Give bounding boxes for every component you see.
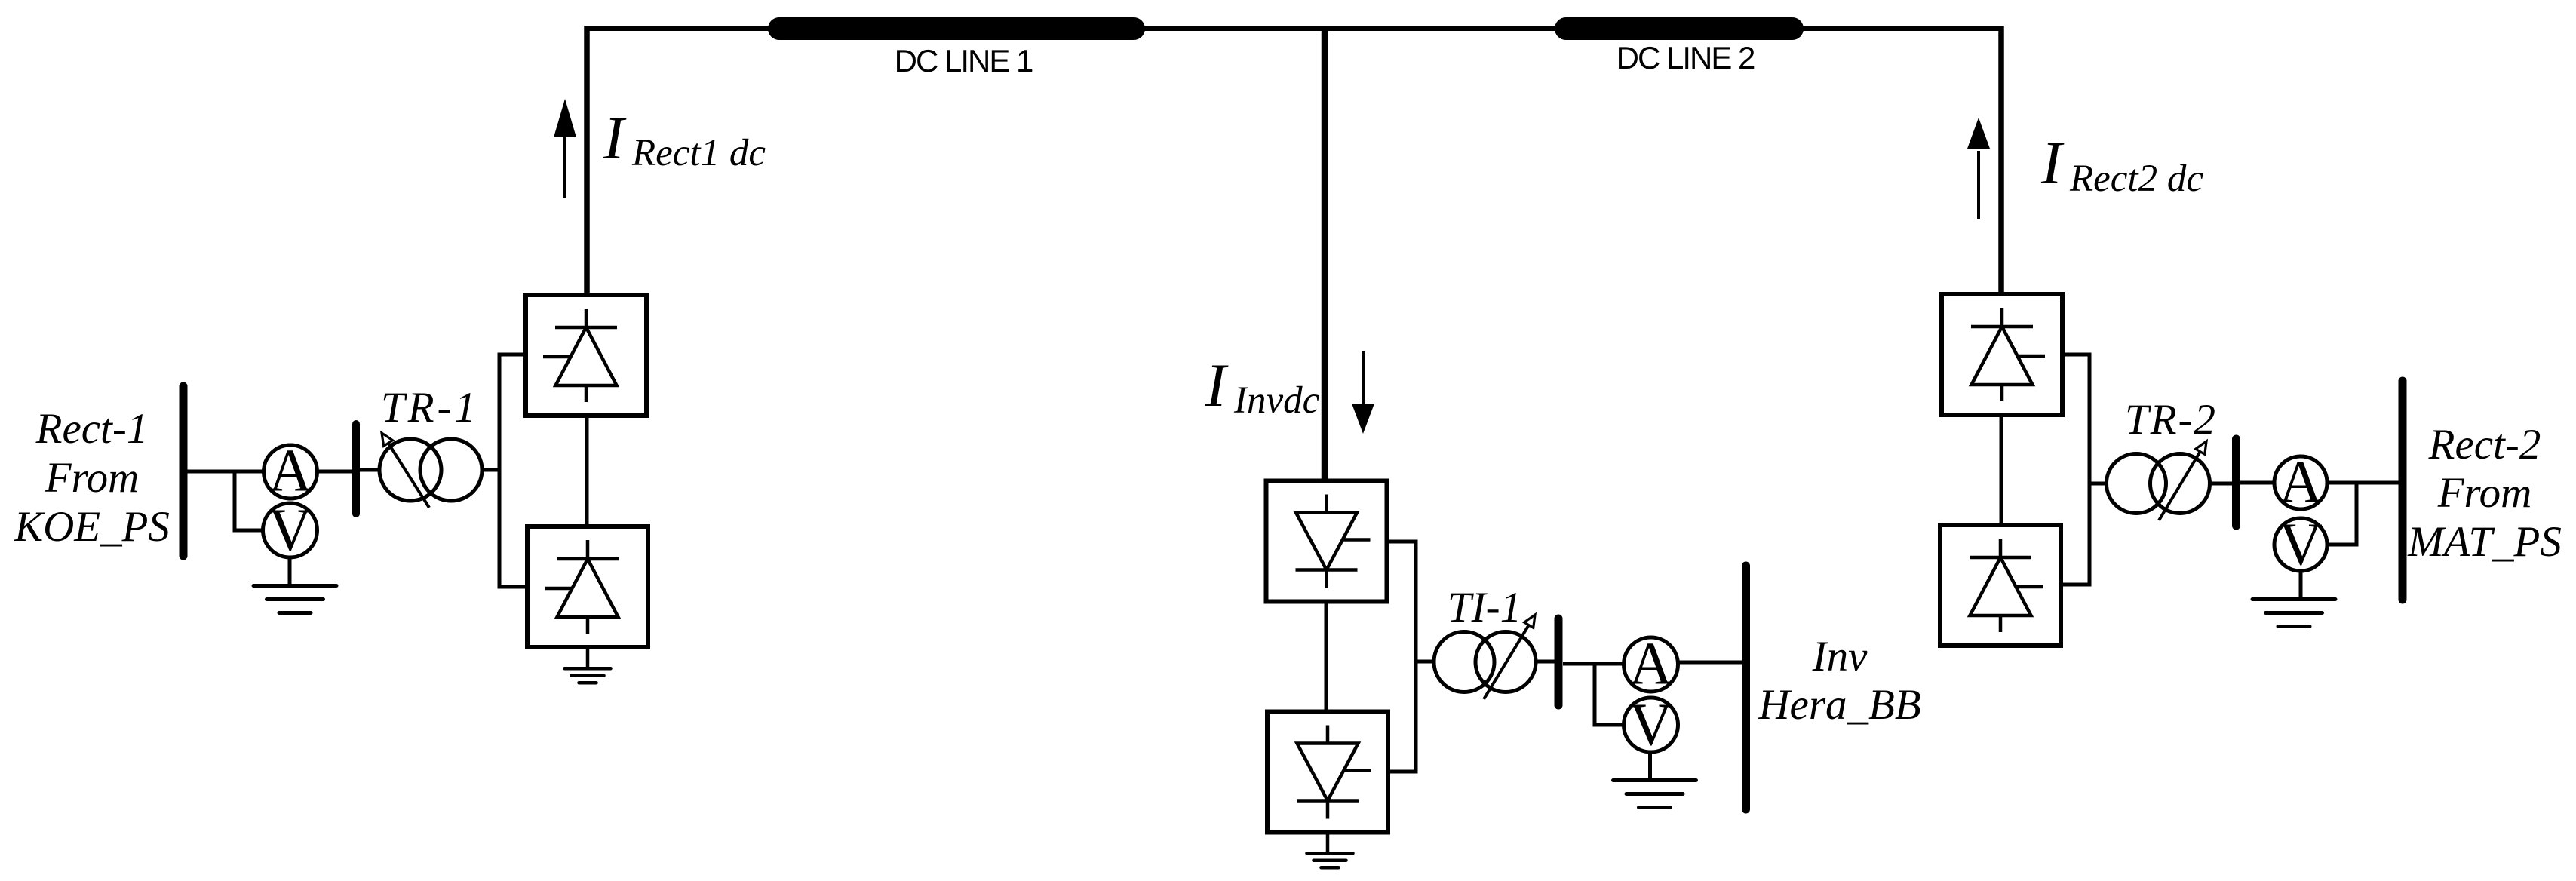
wire bus to transformer TR-1 (360, 468, 380, 472)
arrow I_Rect1dc up (563, 134, 566, 198)
wire riser to transformer TR-2 (2089, 482, 2108, 486)
svg-text:DC LINE 1: DC LINE 1 (895, 43, 1033, 78)
svg-text:V: V (2279, 512, 2323, 579)
valve V3-2 (rectifier bridge bottom) (1940, 525, 2061, 646)
wire TR-2 to bus (2209, 482, 2233, 486)
svg-text:TR-2: TR-2 (2125, 396, 2217, 444)
ammeter A2 (1624, 637, 1678, 692)
svg-text:Hera_BB: Hera_BB (1758, 681, 1920, 729)
transformer TR-1 (379, 439, 441, 501)
wire Rect-2 DC riser (1998, 26, 2004, 295)
wire ammeter A1 to bus TR-1 (318, 470, 354, 474)
ground under V2 (1648, 752, 1652, 778)
inductor DC LINE 1 (779, 17, 1134, 40)
ground under valve V1-2 (586, 646, 590, 667)
svg-text:V: V (1629, 692, 1673, 759)
ground under V1 (288, 557, 292, 584)
ammeter A3 (2274, 456, 2327, 509)
svg-text:MAT_PS: MAT_PS (2407, 518, 2562, 566)
svg-text:Inv: Inv (1812, 633, 1868, 680)
svg-text:A: A (1629, 631, 1673, 698)
wire branch to voltmeter V2 (1595, 662, 1623, 725)
wire bus to ammeter A2 (1563, 662, 1624, 666)
wire ammeter A3 to bus MAT_PS (2327, 481, 2400, 485)
wire inverter AC riser (1387, 542, 1416, 772)
svg-text:A: A (2279, 450, 2323, 516)
svg-text:Rect-1: Rect-1 (35, 405, 149, 453)
svg-text:From: From (45, 454, 140, 502)
bus Rect-1 KOE_PS (180, 386, 188, 556)
arrow I_Invdc down (1362, 351, 1365, 405)
svg-text:TR-1: TR-1 (381, 384, 479, 431)
svg-text:KOE_PS: KOE_PS (14, 503, 170, 551)
bus TR-1 primary (352, 424, 360, 514)
valve V1-1 (rectifier bridge top) (526, 295, 646, 416)
wire between valve boxes V3-1 V3-2 (2000, 414, 2003, 526)
inductor DC LINE 2 (1566, 17, 1792, 40)
wire branch to voltmeter V3 (2327, 483, 2356, 545)
wire inverter DC drop (1322, 26, 1328, 481)
bus Rect-2 MAT_PS (2399, 381, 2407, 600)
svg-text:I: I (1205, 351, 1229, 419)
svg-text:V: V (269, 498, 312, 564)
valve V1-2 (rectifier bridge bottom) (527, 526, 648, 647)
svg-text:Rect1 dc: Rect1 dc (631, 132, 766, 174)
transformer TI-1 (1434, 632, 1494, 692)
wire TR-1 to valve feed (482, 468, 501, 472)
wire bus to ammeter A1 (187, 470, 264, 474)
ammeter A1 (264, 445, 318, 499)
wire TI-1 to bus (1536, 660, 1555, 664)
wire branch to voltmeter V1 (235, 470, 263, 530)
valve V2-1 (inverter bridge top) (1267, 481, 1387, 602)
svg-text:DC LINE 2: DC LINE 2 (1617, 40, 1755, 75)
wire between valve boxes V2-1 V2-2 (1325, 600, 1328, 714)
wire ammeter A2 to bus Hera_BB (1678, 661, 1743, 665)
wire riser to transformer TI-1 (1416, 660, 1435, 664)
transformer TR-2 (2107, 454, 2166, 514)
wire Rect-1 DC riser (584, 26, 590, 296)
bus Inv Hera_BB (1742, 566, 1750, 809)
ground under valve V2-2 (1326, 831, 1330, 852)
wire valve AC riser Rect-2 (2062, 355, 2089, 585)
wire top DC bus (585, 26, 2004, 31)
svg-text:I: I (2040, 128, 2065, 197)
valve V3-1 (rectifier bridge top) (1942, 294, 2062, 415)
ground under V3 (2299, 571, 2303, 597)
voltmeter V1 (263, 503, 318, 557)
bus TR-2 secondary (2232, 439, 2240, 526)
voltmeter V3 (2274, 518, 2327, 571)
valve V2-2 (inverter bridge bottom) (1267, 712, 1388, 833)
wire valve feed riser (499, 355, 527, 587)
svg-text:Invdc: Invdc (1233, 379, 1320, 422)
svg-text:From: From (2437, 469, 2532, 517)
svg-text:TI-1: TI-1 (1448, 584, 1521, 631)
wire between valve boxes V1-1 V1-2 (585, 415, 589, 528)
bus TI-1 secondary (1555, 619, 1563, 705)
svg-text:I: I (603, 103, 627, 172)
svg-text:Rect2 dc: Rect2 dc (2069, 158, 2203, 200)
svg-text:Rect-2: Rect-2 (2428, 421, 2541, 468)
wire bus to ammeter A3 (2240, 481, 2275, 485)
svg-text:A: A (269, 438, 312, 505)
voltmeter V2 (1624, 698, 1678, 752)
arrow I_Rect2dc up (1977, 151, 1980, 219)
